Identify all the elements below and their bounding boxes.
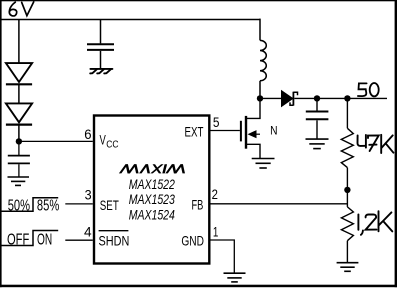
svg-text:5: 5 [213,114,220,130]
ground for Q1 source [252,159,275,169]
svg-text:6: 6 [84,126,91,142]
ground for C3 [306,139,329,149]
wire: D3 cathode to output node [294,97,387,99]
svg-text:2: 2 [212,186,218,202]
node B: LX junction dot [257,95,263,101]
svg-text:SET: SET [100,197,119,213]
capacitor C3 (output) [306,98,329,138]
node E: 47K bottom junction dot [344,187,350,193]
IC U1 MAX1522/MAX1523/MAX1524 box [94,116,209,264]
R2 value label 1,2K (handwritten) [358,211,392,235]
ground for U1 GND [224,273,246,282]
ground for C1 [8,177,30,185]
svg-text:MAX1524: MAX1524 [129,207,175,223]
svg-text:MAX1523: MAX1523 [129,192,175,208]
svg-text:ON: ON [37,231,52,248]
diode D2 [6,103,32,124]
resistor R1 47K [341,98,353,192]
wire: node A to VCC pin 6 [19,140,93,142]
wire: D2 to node A [18,125,20,144]
inductor L1 (drop from rail + coil) [260,19,266,100]
wire: left drop from rail to diode D1 [18,20,20,64]
svg-text:3: 3 [85,186,92,202]
svg-text:GND: GND [181,233,204,249]
wire: GND pin 1 to ground [209,240,234,273]
node 6V supply label [9,2,33,16]
node A junction dot [16,138,22,144]
Q1 channel plate [245,116,247,149]
wire: waveform to SET pin 3 [65,203,93,205]
svg-text:1: 1 [213,224,219,240]
svg-text:50%: 50% [8,198,30,215]
wire: between D1 and D2 [18,84,20,103]
svg-text:SHDN: SHDN [99,233,130,249]
node C: output cap junction dot [314,95,320,101]
U1 part numbers [129,177,175,224]
svg-text:N: N [270,123,277,137]
ground for R2 [337,263,359,272]
Q1 drain wire [247,99,260,118]
SET input waveform 50%/85% [1,198,58,212]
resistor R2 1.2K [341,207,353,263]
Q1 gate plate [240,121,242,142]
ground (hand-drawn hatched) for C2 [90,69,112,74]
diode D1 [6,63,32,84]
capacitor C2 (input bypass, on 6V rail) [87,20,114,69]
U1 MAXIM logo [119,164,187,173]
wire: waveform to SHDN pin 4 [65,239,93,241]
node 50 output label (handwritten) [358,83,379,96]
Q1 source wire [247,144,260,158]
svg-text:FB: FB [192,197,204,213]
svg-text:4: 4 [84,223,92,239]
Q1 bulk arrow [248,130,257,138]
wire: node E down to R2 [346,190,348,207]
node D: 47K top junction dot [344,95,350,101]
Q1 gate wire from EXT pin 5 [209,130,240,132]
capacitor C1 (left, node A to ground) [8,144,30,177]
svg-text:85%: 85% [37,198,60,215]
wire: FB pin 2 to divider junction [209,203,347,205]
svg-text:MAX1522: MAX1522 [129,177,175,193]
wire: node B to D3 anode [260,97,282,99]
svg-text:EXT: EXT [185,123,204,139]
svg-text:OFF: OFF [7,231,29,248]
R1 value label 47K (handwritten) [357,135,393,153]
wire: 6V top rail [1,19,260,21]
diode D3 (schottky) [282,91,293,107]
SHDN input waveform OFF/ON [1,231,58,246]
